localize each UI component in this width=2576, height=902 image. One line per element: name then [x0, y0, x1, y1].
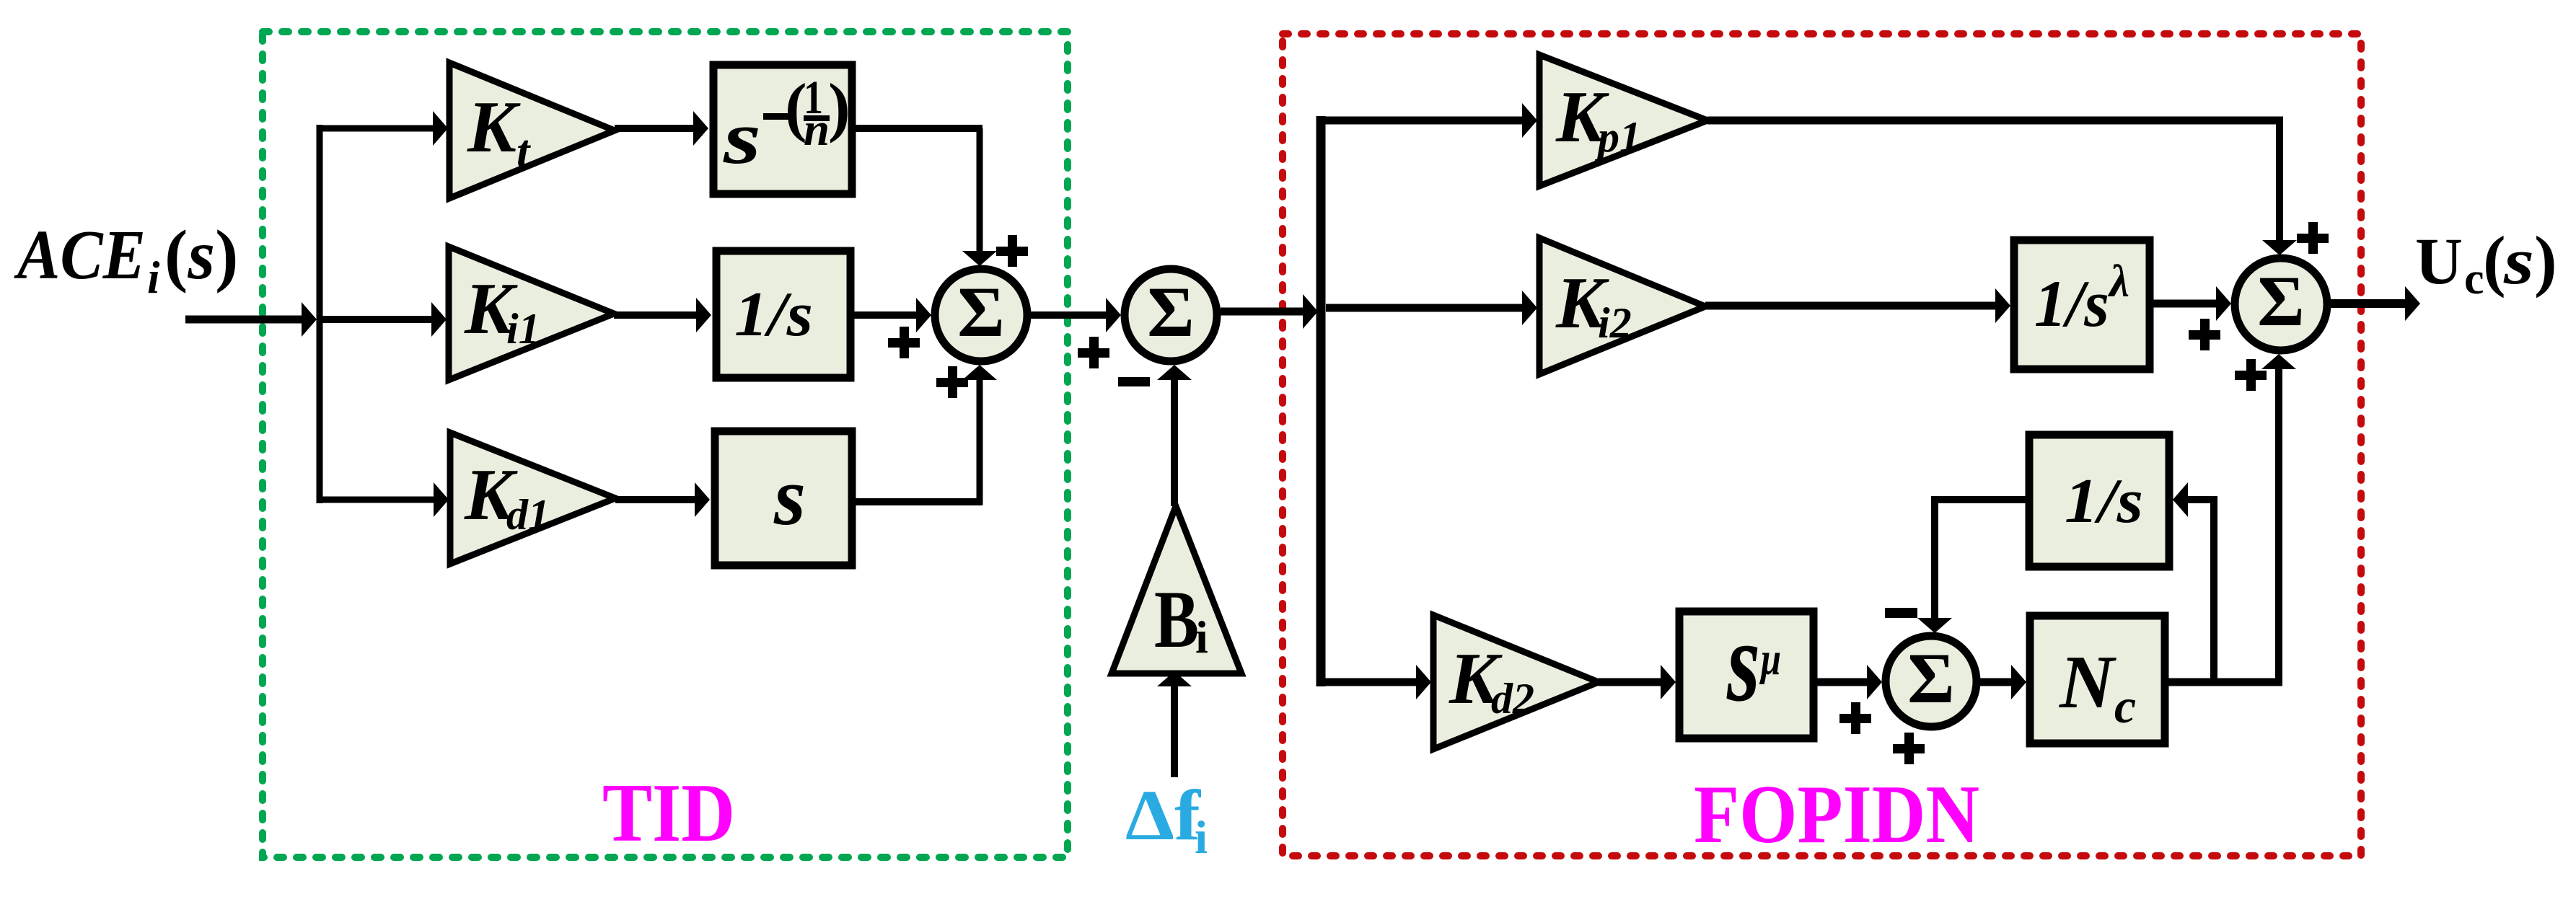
svg-text:(s): (s)	[164, 216, 238, 293]
plus sign sum3 left input	[2189, 319, 2220, 350]
plus sign sum2 left input	[1078, 337, 1109, 368]
svg-text:1/s: 1/s	[2065, 467, 2143, 536]
svg-text:Σ: Σ	[1907, 638, 1954, 718]
wire Kd2 to block s^mu	[1599, 665, 1676, 699]
summing junction sum3	[2235, 258, 2327, 350]
svg-text:U: U	[2415, 224, 2463, 298]
svg-text:i: i	[1195, 611, 1208, 663]
plus sign sum4 left input	[1839, 702, 1871, 734]
svg-text:i: i	[1195, 812, 1208, 864]
wire input ACE to branch	[185, 302, 317, 337]
plus sign sum1 top input	[996, 235, 1028, 267]
svg-text:Δf: Δf	[1125, 775, 1202, 855]
node ACEi(s) input label	[13, 216, 238, 303]
gain triangle Bi	[1112, 506, 1241, 673]
svg-text:): )	[828, 70, 850, 143]
wire branch to Ki1	[320, 302, 447, 337]
svg-text:μ: μ	[1759, 633, 1781, 685]
wire block s to sum1 bottom	[856, 365, 997, 505]
wire Ki1 to block 1/s	[614, 298, 711, 332]
wire sum4 to block Nc	[1977, 665, 2026, 699]
wire branch to Kd2	[1321, 665, 1431, 699]
node Uc(s) output label	[2415, 222, 2557, 304]
block s	[715, 431, 852, 565]
svg-text:1/s: 1/s	[2034, 267, 2109, 340]
summing junction sum4	[1886, 636, 1977, 727]
minus sign sum2 bottom input	[1118, 377, 1150, 386]
FOPIDN label	[1694, 769, 1979, 860]
wire sum1 to sum2	[1031, 298, 1121, 332]
svg-text:Σ: Σ	[2257, 261, 2304, 341]
plus sign sum1 bottom input	[936, 366, 968, 398]
plus sign sum4 bottom	[1893, 733, 1925, 764]
svg-text:s: s	[723, 95, 761, 180]
block s^-(1/n)	[713, 65, 852, 194]
node FOPIDN input branch vertical	[1316, 116, 1326, 686]
svg-text:): )	[2534, 222, 2557, 299]
summing junction sum2	[1125, 269, 1217, 361]
wire Bi to sum2 bottom	[1157, 365, 1192, 506]
node TID input branch vertical	[317, 125, 323, 503]
wire sum3 to output Uc	[2331, 286, 2420, 321]
svg-text:ACE: ACE	[13, 216, 146, 293]
svg-text:Σ: Σ	[957, 272, 1004, 352]
block Nc	[2030, 616, 2165, 743]
wire Delta f to Bi	[1157, 671, 1192, 777]
wire Ki2 to block 1/s^lambda	[1705, 288, 2010, 323]
svg-text:λ: λ	[2107, 255, 2129, 306]
svg-text:i: i	[147, 252, 160, 303]
block s^mu	[1679, 597, 1814, 738]
wire Nc to sum3 bottom	[2168, 354, 2296, 686]
svg-text:FOPIDN: FOPIDN	[1694, 769, 1979, 860]
wire branch to Ki2	[1326, 291, 1537, 325]
gain triangle Kd2	[1433, 615, 1599, 749]
wire feedback branch to block 1/s right	[2173, 482, 2217, 682]
svg-text:TID: TID	[602, 767, 735, 859]
svg-text:1/s: 1/s	[734, 280, 813, 350]
TID label	[602, 767, 735, 859]
gain triangle Kd1	[450, 433, 615, 564]
svg-text:n: n	[804, 104, 830, 156]
block 1/s	[716, 251, 850, 378]
wire block s^-(1/n) to sum1 top	[856, 128, 997, 266]
TID dashed boundary box	[263, 32, 1068, 857]
svg-text:s: s	[2503, 224, 2534, 298]
svg-text:(: (	[2483, 222, 2506, 299]
summing junction sum1	[935, 269, 1027, 361]
plus sign sum1 left input	[888, 327, 920, 358]
wire Kp1 to sum3 top	[1707, 117, 2297, 255]
wire block 1/s^lambda to sum3 left	[2153, 286, 2231, 321]
wire sum2 to FOPIDN branch	[1221, 294, 1318, 329]
wire block 1/s feedback to sum4 top	[1917, 496, 2031, 633]
gain triangle Kp1	[1539, 55, 1707, 186]
gain triangle Ki2	[1539, 238, 1705, 374]
svg-text:B: B	[1154, 575, 1199, 665]
wire Kd1 to block s	[615, 482, 710, 517]
wire block 1/s to sum1 left	[853, 298, 931, 332]
node Delta f label	[1125, 775, 1208, 864]
plus sign sum3 bottom input	[2235, 359, 2267, 391]
wire block s^mu to sum4 left	[1817, 665, 1882, 699]
wire branch to Kp1	[1321, 103, 1537, 138]
svg-text:Σ: Σ	[1147, 272, 1194, 352]
svg-text:c: c	[2464, 255, 2484, 304]
block 1/s^lambda	[2014, 240, 2150, 369]
wire Kt to block s^-(1/n)	[615, 111, 708, 146]
FOPIDN dashed boundary box	[1283, 34, 2361, 856]
wire branch to Kd1	[317, 482, 449, 517]
plus sign sum3 top input	[2297, 222, 2329, 254]
svg-text:s: s	[1726, 597, 1760, 725]
block 1/s feedback	[2029, 435, 2169, 567]
gain triangle Kt	[449, 63, 615, 198]
minus sign sum4 top input	[1885, 608, 1917, 618]
wire branch to Kt	[317, 111, 448, 146]
svg-text:s: s	[773, 451, 806, 542]
gain triangle Ki1	[449, 247, 614, 380]
